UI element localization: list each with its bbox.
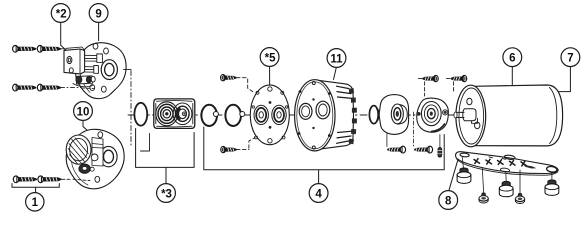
- svg-text:6: 6: [509, 53, 515, 65]
- bracket for callout *3: [136, 129, 195, 184]
- switch piston rod upper: [85, 55, 100, 61]
- poppet valve 2: [225, 105, 241, 126]
- lower head bolt hole b: [95, 176, 100, 182]
- svg-text:1: 1: [32, 197, 39, 209]
- callout *3: [157, 184, 176, 203]
- motor screw right: [451, 75, 467, 82]
- body 11 front flange: [295, 80, 335, 151]
- callout 7: [561, 48, 580, 67]
- body 11 flange holes: [312, 82, 315, 85]
- valve right spiral: [173, 103, 192, 125]
- dashed connector upper to lower head: [124, 69, 132, 71]
- o-ring small right: [369, 106, 378, 124]
- screw row 2a: [13, 84, 36, 91]
- upper head bolt hole b: [104, 48, 109, 54]
- leader callout 9: [98, 22, 100, 40]
- upper head inner arc: [79, 51, 90, 93]
- lower head port: [100, 146, 117, 166]
- body 11 rim tabs: [349, 88, 357, 144]
- o-ring left: [134, 103, 147, 126]
- dash into lower head: [73, 179, 90, 180]
- dash leader row1: [61, 48, 66, 50]
- body 11 port left: [299, 103, 312, 119]
- o-ring pointer L: [141, 134, 150, 152]
- body 11 vent slots bottom: [337, 131, 353, 143]
- centerline axis: [128, 114, 457, 116]
- cam side hole left: [417, 112, 421, 116]
- motor face hole bottom: [475, 122, 480, 129]
- motor body: [473, 85, 562, 146]
- callout 1: [26, 193, 44, 211]
- svg-text:7: 7: [567, 53, 573, 65]
- svg-text:*5: *5: [265, 52, 276, 64]
- leader callout 6: [511, 67, 513, 87]
- poppet valve 1: [201, 105, 217, 126]
- lower screw d: [415, 146, 433, 153]
- lower head check valve dome: [66, 135, 91, 164]
- slide slug: [439, 135, 441, 148]
- screw bottom row a: [13, 176, 36, 183]
- lower head linkage bracket: [92, 138, 103, 167]
- screw lower middle: [221, 146, 237, 153]
- screw bottom row b: [38, 176, 61, 183]
- callout 10: [74, 102, 93, 121]
- upper head bolt hole c: [90, 85, 95, 91]
- callout 6: [503, 48, 522, 67]
- callout *5: [260, 48, 279, 67]
- lower head valve ring: [79, 164, 90, 173]
- svg-text:11: 11: [330, 53, 343, 65]
- base plate stamped ribs: [474, 159, 527, 166]
- lower head inner arc: [71, 146, 88, 185]
- foot 1: [457, 168, 471, 184]
- motor hub boss: [463, 109, 476, 121]
- motor face hole top: [467, 98, 472, 104]
- leader callout *5: [269, 67, 271, 86]
- valve left spiral: [156, 102, 178, 126]
- foot 2: [499, 181, 513, 197]
- leader callout *2: [61, 22, 67, 50]
- body 11 port right: [316, 101, 330, 119]
- base plate: [456, 152, 559, 174]
- lower head bolt hole a: [98, 132, 103, 138]
- screw row 2b: [37, 84, 60, 91]
- bracket for callout 4: [204, 127, 444, 184]
- screw top row 1b: [37, 45, 60, 52]
- svg-text:*2: *2: [56, 8, 67, 20]
- dash leader bottom row: [62, 178, 72, 180]
- base screw 2: [519, 170, 521, 193]
- pump body 11 cylinder: [315, 80, 354, 150]
- callout *2: [51, 4, 70, 23]
- valve housing plate *5: [250, 85, 289, 145]
- cam bearing assembly: [417, 98, 449, 132]
- valve cartridge assembly *3: [154, 99, 195, 128]
- screw upper middle: [220, 74, 236, 81]
- base plate right oval: [546, 166, 557, 173]
- diaphragm assembly: [379, 95, 408, 135]
- screw top row 1a: [13, 45, 36, 52]
- callout 11: [327, 49, 346, 68]
- switch cover hole a: [67, 56, 72, 63]
- diaphragm boss cylinder: [398, 104, 408, 124]
- svg-text:9: 9: [95, 8, 101, 20]
- switch valve under cover: [76, 76, 93, 84]
- upper head bolt hole d: [101, 86, 106, 92]
- motor screw left: [423, 75, 439, 82]
- dash into upper head hole: [82, 87, 94, 90]
- dash leader row2: [61, 87, 109, 89]
- upper pump head body plate: [76, 43, 127, 99]
- leader callout 10: [83, 120, 89, 131]
- switch piston rod lower: [85, 67, 97, 73]
- svg-text:8: 8: [445, 195, 452, 207]
- base plate top middle oval: [504, 155, 515, 160]
- svg-text:4: 4: [315, 188, 322, 200]
- plate *5 eyelet right: [272, 105, 286, 124]
- svg-text:10: 10: [77, 106, 90, 118]
- switch cover hole b: [69, 68, 73, 73]
- bracket for callout 1: [12, 184, 59, 193]
- base plate left oval: [460, 153, 470, 158]
- upper head bolt hole a: [93, 43, 98, 49]
- pressure switch cover *2: [64, 49, 85, 74]
- cam side hole right: [443, 110, 448, 115]
- foot 3: [545, 180, 559, 196]
- motor shaft: [456, 112, 464, 117]
- motor front face: [456, 85, 486, 147]
- motor end seam: [550, 88, 557, 144]
- body 11 vent slots top: [337, 86, 353, 98]
- leader callout 8: [449, 161, 458, 191]
- lower head small circle: [91, 154, 98, 161]
- upper head port: [101, 60, 117, 80]
- leader callout 11: [334, 68, 337, 80]
- callout 4: [309, 184, 328, 203]
- base screw 1: [482, 168, 483, 193]
- cam bearing bullseye: [421, 102, 441, 126]
- lower pump head body: [66, 129, 124, 188]
- leader callout 7: [559, 67, 570, 92]
- svg-text:*3: *3: [161, 188, 172, 200]
- callout 9: [89, 4, 108, 23]
- lower screw c: [388, 146, 406, 153]
- plate *5 bolt holes: [268, 87, 272, 91]
- callout 8: [439, 191, 458, 210]
- base plate bottom middle oval: [500, 168, 510, 173]
- plate *5 eyelet left: [254, 105, 268, 124]
